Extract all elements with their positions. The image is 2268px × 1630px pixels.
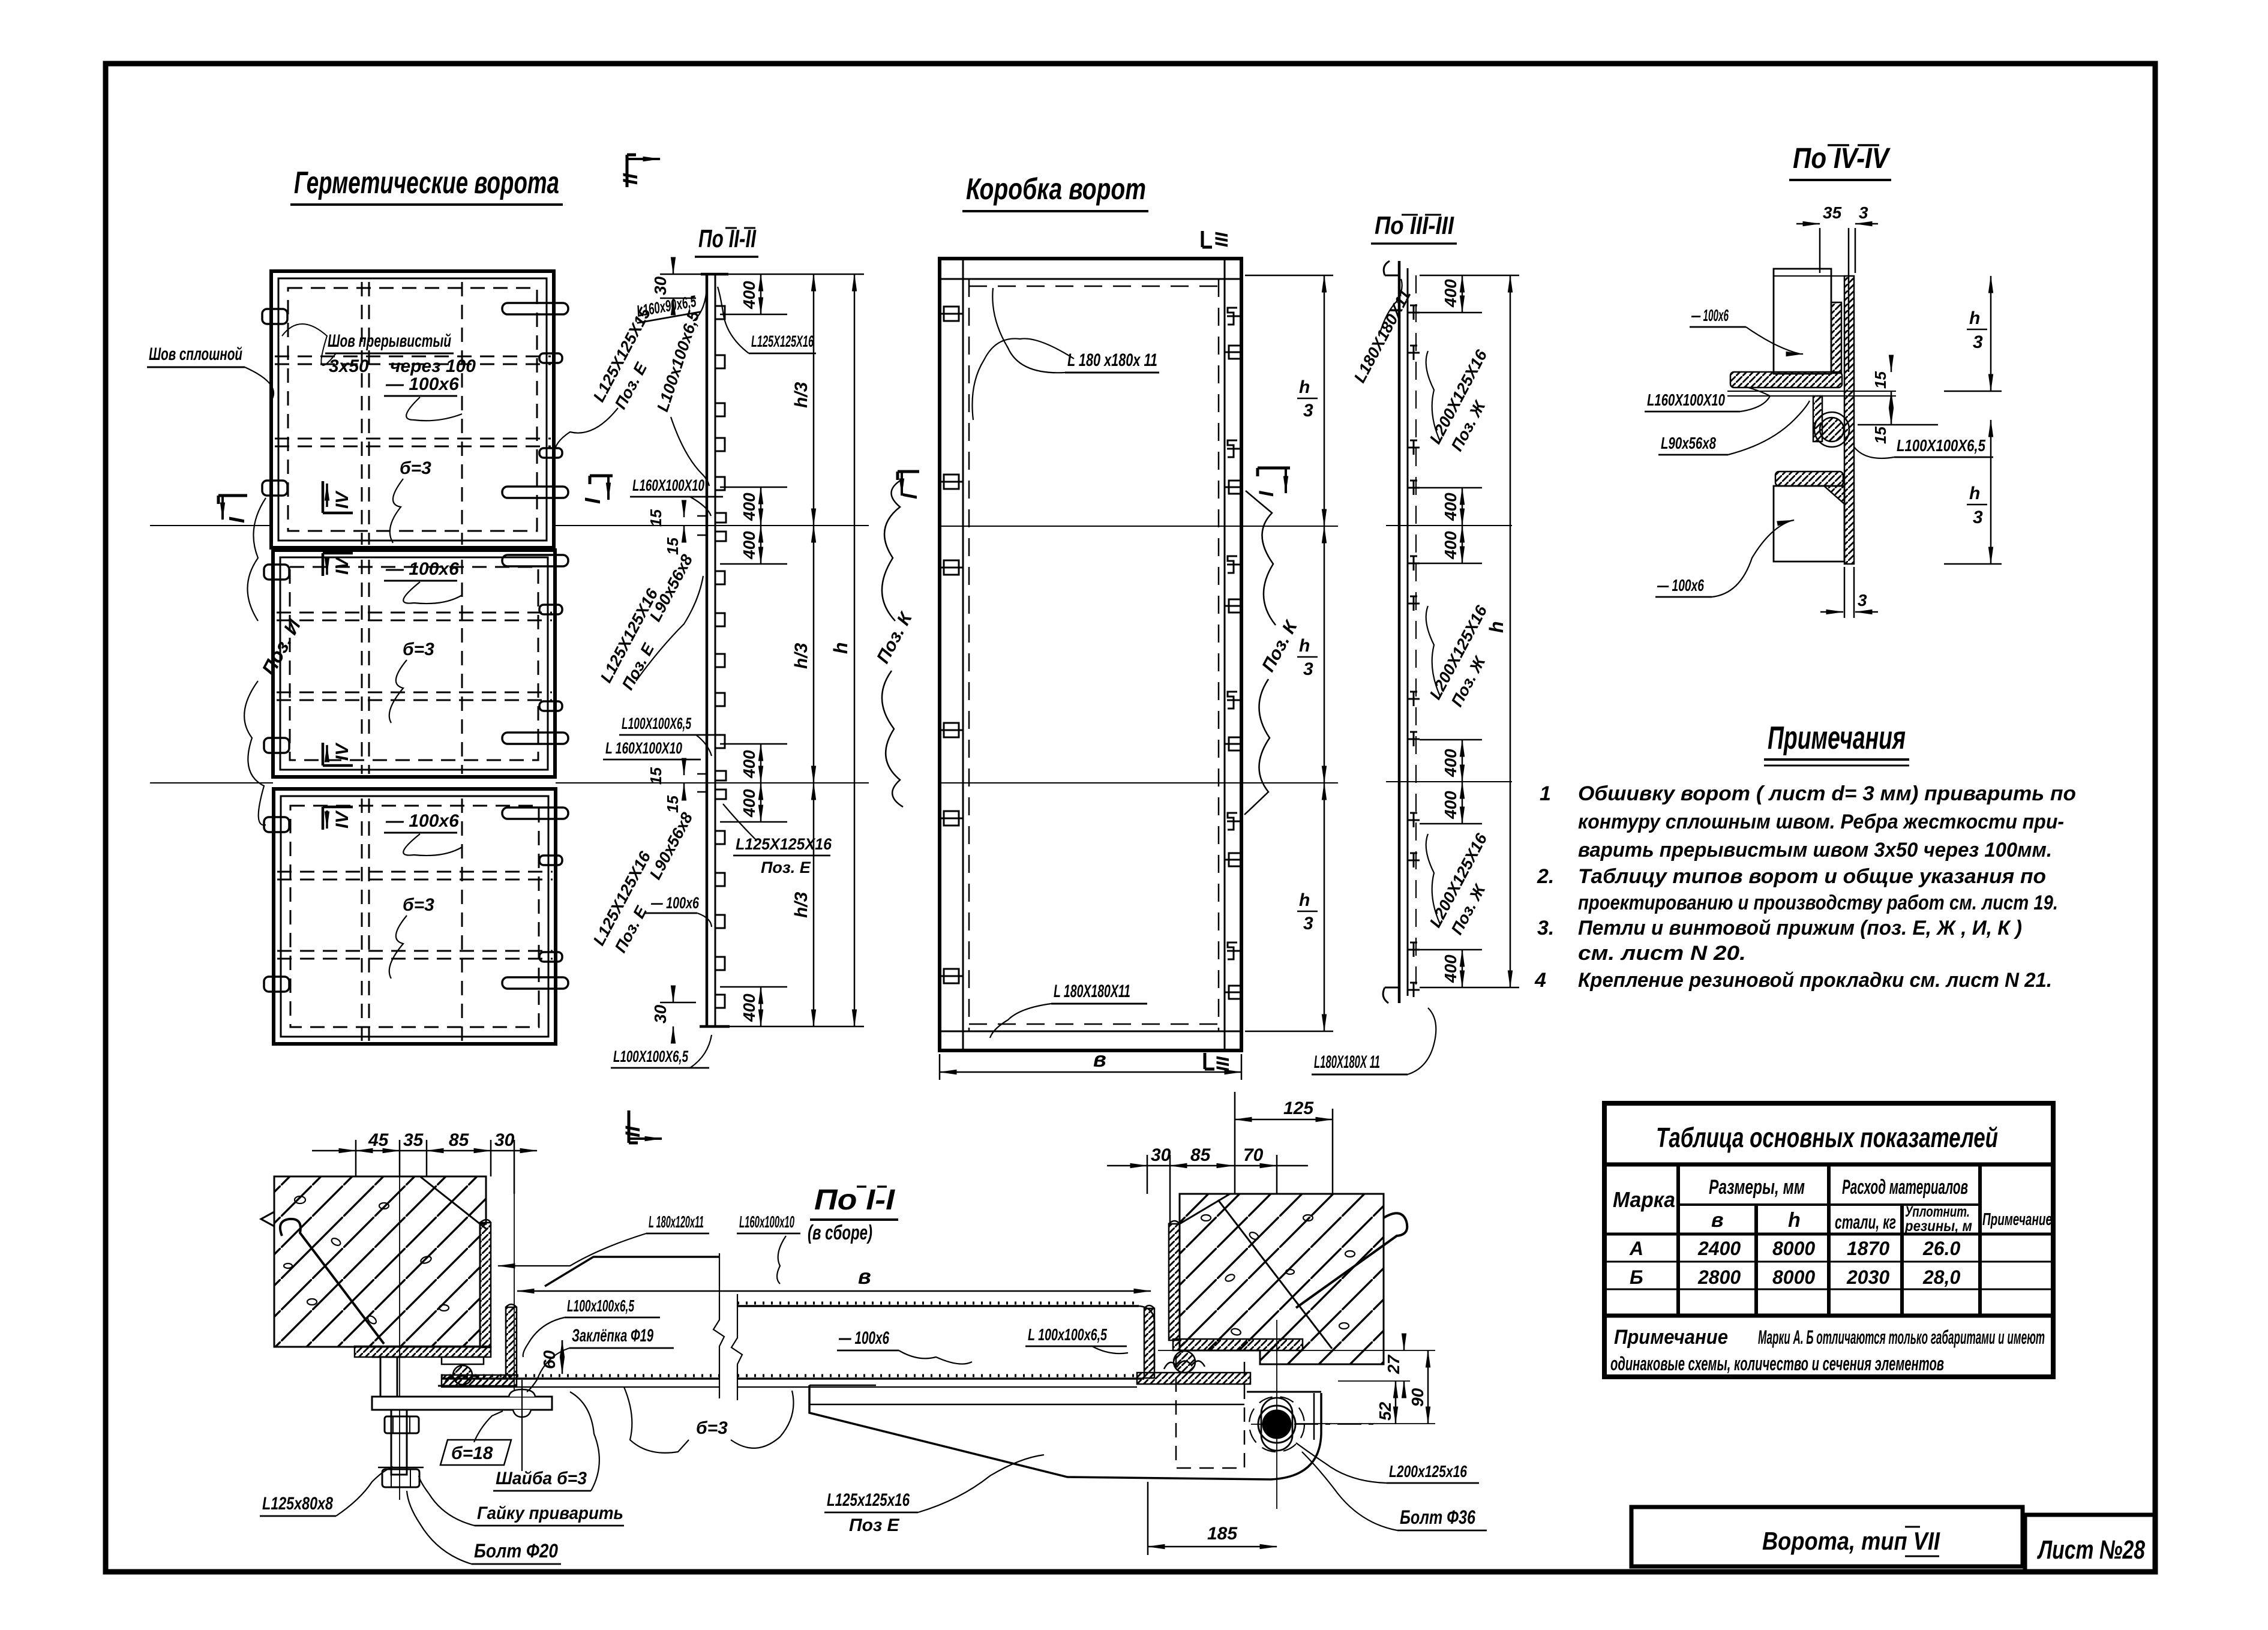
I-I gate sheet (left of break) [441,1376,719,1387]
II-II rotated label L90x56x8 (mid) [646,550,700,625]
svg-text:варить прерывистым швом: варить прерывистым швом 3х50 через 100мм… [1578,839,2052,861]
II-II label L160x100x10 (mid2) [603,739,701,760]
II-II label L125x125x16 right [718,287,816,353]
I-I bottom bracket plate (Поз Е) [809,1385,1321,1479]
IV-IV h/3 dims (right) [1944,276,2002,564]
svg-text:L100Х100Х6,5: L100Х100Х6,5 [613,1047,689,1065]
svg-text:Шов сплошной: Шов сплошной [149,344,242,364]
svg-text:52: 52 [1376,1401,1394,1421]
I-I label L160x100x10 (top row) [737,1212,800,1284]
svg-text:б=18: б=18 [451,1443,493,1463]
II-II dim 30 top [651,264,702,308]
I-I label Болт Ф20 [407,1491,561,1564]
svg-text:125: 125 [1283,1098,1314,1118]
I-I break lines [713,1253,742,1400]
I-I label L100x100x6,5 (mid-left) [523,1296,660,1357]
svg-text:70: 70 [1243,1145,1264,1165]
panel 1 clamp bars [502,303,568,498]
svg-text:L200х125х16: L200х125х16 [1389,1462,1467,1481]
svg-text:L125х80х8: L125х80х8 [262,1494,333,1514]
svg-text:IV: IV [332,810,352,828]
I-I label L180x120x11 [498,1212,709,1266]
svg-text:Крепление резиновой проклад: Крепление резиновой прокладки см. лист N… [1578,969,2052,992]
svg-text:Размеры, мм: Размеры, мм [1709,1176,1805,1199]
II-II rotated label L100x100x6,5 (top) [653,308,709,486]
svg-text:400: 400 [1441,791,1460,819]
I-I bolt axis line [399,1176,400,1500]
IV-IV hinge pin [1814,412,1849,447]
svg-text:400: 400 [740,789,758,818]
svg-text:30: 30 [651,1004,670,1023]
section III-III strip [1383,261,1416,1003]
III-III rotated label L180x180x11 (top) [1351,279,1415,386]
II-II h/3 dim line [791,274,814,1026]
svg-text:Примечание: Примечание [1982,1210,2052,1229]
svg-text:3.: 3. [1537,917,1554,939]
panel 2 clamp bars [502,555,568,744]
svg-text:стали, кг: стали, кг [1835,1211,1896,1233]
notes text [1534,782,2076,992]
gate elevation: panel 3 [274,789,556,1044]
title block: Лист № 28 [2025,1515,2156,1572]
section line between panels 2-3 [150,782,273,784]
svg-text:15: 15 [647,509,665,527]
title: По III-III [1371,211,1457,244]
label: Шов прерывистый 3х50 через 100 [282,324,476,376]
svg-text:26.0: 26.0 [1922,1238,1960,1259]
IV-IV hinge angle L90x56x8 (hatched) [1813,396,1822,442]
svg-text:б=3: б=3 [400,458,431,478]
I-I label -100x6 (sheet) [837,1328,972,1364]
svg-text:400: 400 [740,493,758,521]
svg-text:L 160Х100Х10: L 160Х100Х10 [605,739,682,757]
II-II rib stubs [697,306,726,1008]
IV-IV lower panel sheet outline [1774,486,1844,562]
svg-text:Б: Б [1630,1266,1643,1288]
svg-text:1870: 1870 [1847,1238,1889,1259]
svg-text:Болт Ф36: Болт Ф36 [1400,1506,1475,1528]
svg-text:IV: IV [332,742,352,761]
svg-text:б=3: б=3 [696,1418,728,1438]
svg-text:L160Х100Х10: L160Х100Х10 [632,476,704,494]
svg-text:h: h [1788,1209,1801,1232]
svg-text:h: h [1299,377,1310,397]
svg-text:— 100х6: — 100х6 [385,811,459,831]
svg-text:8000: 8000 [1772,1266,1815,1288]
I-I dims right (27,52,90) [1158,1335,1435,1424]
section flags IV (inside panels) [323,481,353,830]
svg-text:4: 4 [1534,969,1546,992]
svg-text:3: 3 [1303,401,1313,421]
title: Коробка ворот [962,172,1148,211]
svg-text:— 100х6: — 100х6 [385,374,459,394]
svg-text:Поз. Е: Поз. Е [761,858,811,876]
title: По II-II [695,224,758,257]
I-I right angle L180x180x11 [1169,1221,1303,1350]
II-II label L100x100x6,5 (mid2) [619,715,717,756]
svg-text:II: II [619,173,642,185]
svg-text:3: 3 [1859,203,1868,222]
svg-text:в: в [1711,1209,1724,1232]
svg-text:L 180х120х11: L 180х120х11 [649,1212,704,1231]
svg-text:2400: 2400 [1697,1238,1741,1259]
II-II label L160x100x10 (mid) [630,476,723,516]
I-I label Болт Ф36 [1302,1452,1487,1530]
korobka dim 125 (bottom right) [1235,1092,1333,1194]
II-II rotated label L125x125x16 Поз.Е (bottom) [590,848,655,955]
svg-text:По I-I: По I-I [814,1184,896,1216]
svg-text:15: 15 [664,538,682,555]
svg-text:90: 90 [1408,1388,1427,1407]
svg-text:L 180Х180Х11: L 180Х180Х11 [1054,981,1130,1001]
svg-text:III: III [1213,1056,1233,1071]
korobka section flag I (right) [1255,468,1290,497]
svg-text:27: 27 [1384,1354,1403,1374]
svg-text:(в сборе): (в сборе) [808,1221,872,1244]
svg-text:Марка: Марка [1613,1187,1675,1212]
IV-IV dim 35 / 3 (top) [1796,203,1878,372]
svg-text:h/3: h/3 [791,643,811,669]
I-I clamp web plate [372,1357,406,1397]
korobka section flag I (left) [898,472,922,499]
svg-text:Марки А. Б отличаются тольк: Марки А. Б отличаются только габаритами … [1758,1326,2045,1348]
I-I label L100x100x6,5 (right) [1025,1325,1128,1353]
label: б=3 (panel 3) [389,895,434,978]
svg-text:400: 400 [740,750,758,779]
svg-text:I: I [899,493,922,499]
svg-text:h: h [1299,890,1310,910]
I-I dim 185 [1148,1482,1277,1555]
I-I left gate angle L100x100x6,5 (hatched) [442,1304,517,1386]
IV-IV label L100x100x6,5 [1854,436,1993,458]
svg-text:в: в [858,1264,871,1289]
II-II dim 15 pairs [647,507,684,813]
I-I bolt with nuts [378,1410,424,1487]
svg-text:в: в [1093,1047,1106,1071]
IV-IV vertical sheet -100x6 (hatched) [1844,276,1854,564]
svg-text:I: I [1255,490,1278,497]
svg-text:через 100: через 100 [390,356,476,376]
svg-text:Обшивку ворот ( лист d= 3: Обшивку ворот ( лист d= 3 мм) приварить … [1578,782,2076,805]
svg-text:35: 35 [1823,203,1842,222]
svg-text:Примечания: Примечания [1768,720,1906,756]
label: Поз. И (rotated, left of gate) [244,498,305,825]
section flag II (bottom of gate) [622,1110,662,1143]
korobka label Поз. К (left) [873,480,917,807]
IV-IV L160x100x10 angle (hatched) [1730,302,1842,388]
korobka label L180x180x11 top [972,288,1159,420]
panel 2 hinges [264,561,289,757]
svg-text:400: 400 [740,531,758,560]
svg-text:L125Х125Х16: L125Х125Х16 [736,835,832,853]
svg-text:Ворота, тип VII: Ворота, тип VII [1762,1527,1940,1555]
svg-text:L125х125х16: L125х125х16 [827,1490,910,1510]
II-II dim 30 bottom [651,992,696,1037]
svg-text:L100Х100Х6,5: L100Х100Х6,5 [622,715,692,733]
label: б=3 (panel 2) [389,640,434,723]
svg-text:h: h [1969,308,1980,328]
IV-IV dim 3 (bottom) [1820,567,1878,618]
gate elevation: panel 1 [271,271,554,548]
svg-text:резины, м: резины, м [1904,1218,1972,1235]
label: -100x6 (panel 1) [384,374,462,421]
I-I gate sheet (right of break) [737,1303,1154,1387]
korobka label L180x180x11 bottom [990,981,1147,1038]
korobka label Поз. К (right) [1244,491,1302,815]
I-I dims above left block (45,35,85,30) [312,1130,537,1194]
II-II 400 dims [720,274,787,1026]
korobka vorot: frame box [940,259,1241,1050]
panel 1 hinges [262,305,287,499]
I-I dims above right block (30,85,70,125) [1107,1145,1308,1224]
panel 3 clamp bars [502,808,568,989]
svg-text:1: 1 [1540,782,1551,805]
svg-text:45: 45 [368,1130,389,1150]
svg-text:По IV-IV: По IV-IV [1793,143,1891,175]
korobka section flag III (top) [1202,231,1232,247]
svg-text:h: h [1299,636,1310,656]
svg-text:30: 30 [651,276,670,295]
svg-text:400: 400 [1441,531,1460,560]
svg-text:3: 3 [1303,914,1313,933]
IV-IV dim 15 pair (right) [1858,360,1938,444]
svg-text:L125Х125Х16: L125Х125Х16 [751,332,814,350]
svg-text:2.: 2. [1537,865,1554,888]
svg-text:3: 3 [1303,659,1313,679]
svg-text:— 100х6: — 100х6 [1657,576,1704,595]
svg-text:— 100х6: — 100х6 [1691,306,1729,325]
label: Шов сплошной [147,344,274,401]
I-I dim 60 [540,1340,562,1374]
svg-text:IV: IV [332,490,352,509]
II-II label L160x90x6,5 [634,276,707,323]
II-II rotated label L125x125x15 Поз.Е (top) [554,304,655,456]
label: -100x6 (panel 3) [384,811,462,855]
svg-text:28,0: 28,0 [1922,1266,1960,1288]
III-III h dim [1420,275,1519,987]
svg-text:L 180 х180х 11: L 180 х180х 11 [1067,350,1157,370]
title: Герметические ворота [290,166,563,205]
title: По I-I (в сборе) [808,1184,898,1244]
svg-text:Таблицу типов ворот и: Таблицу типов ворот и общие указания по [1578,865,2046,888]
svg-text:h: h [1969,484,1980,503]
I-I seal washers under flange [438,1357,488,1386]
IV-IV label -100x6 (lower) [1655,520,1794,597]
svg-text:2800: 2800 [1697,1266,1741,1288]
svg-text:30: 30 [1151,1145,1171,1165]
svg-text:Примечание: Примечание [1614,1326,1728,1349]
svg-text:h: h [830,642,851,654]
svg-text:400: 400 [740,281,758,310]
III-III 400 dims [1420,275,1482,987]
svg-text:15: 15 [1871,427,1889,444]
korobka left strip bolts [940,307,963,983]
svg-text:3: 3 [1973,508,1983,527]
svg-text:400: 400 [1441,954,1460,983]
svg-text:L100Х100Х6,5: L100Х100Х6,5 [1897,436,1985,455]
svg-text:III: III [1212,232,1232,247]
I-I left concrete block [261,1176,486,1347]
panel 3 hinges [264,814,289,995]
section line between panels 1-2 [150,525,271,526]
II-II label -100x6 (bottom) [644,894,712,927]
svg-text:L100х100х6,5: L100х100х6,5 [567,1296,634,1315]
I-I label b=3 (bottom leader) [624,1387,794,1453]
notes title: Примечания [1764,720,1909,766]
svg-text:контуру сплошным швом. Ре: контуру сплошным швом. Ребра жесткости п… [1578,811,2064,833]
svg-text:2030: 2030 [1846,1266,1889,1288]
svg-text:Расход материалов: Расход материалов [1842,1176,1968,1199]
svg-text:проектированию и производств: проектированию и производству работ см. … [1578,891,2058,914]
svg-text:Лист №28: Лист №28 [2037,1535,2146,1565]
svg-text:Шайба б=3: Шайба б=3 [496,1469,587,1488]
IV-IV label L160x100x10 [1645,387,1770,412]
svg-text:L 100х100х6,5: L 100х100х6,5 [1028,1325,1107,1344]
I-I label b=18 (boxed) [440,1411,511,1465]
II-II label L100x100x6,5 (bottom) [611,1035,712,1068]
III-III section lines [1386,525,1512,526]
svg-text:— 100х6: — 100х6 [838,1328,889,1348]
svg-text:Герметические ворота: Герметические ворота [294,166,559,200]
svg-text:400: 400 [1441,749,1460,778]
svg-text:Гайку приварить: Гайку приварить [477,1503,623,1523]
II-II h dim line [719,274,864,1026]
III-III clips [1408,305,1420,997]
I-I right gate angle L100x100x6,5 + seal [1137,1305,1250,1384]
label: б=3 (panel 1) [390,458,431,543]
svg-text:Заклёпка Ф19: Заклёпка Ф19 [572,1326,653,1346]
IV-IV label L90x56x8 [1658,401,1810,455]
svg-text:см. лист N 20.: см. лист N 20. [1578,942,1746,965]
svg-text:30: 30 [494,1130,515,1150]
svg-text:L160Х100Х10: L160Х100Х10 [1647,391,1725,409]
I-I upper plate with bevel [545,1257,719,1286]
svg-text:Шов прерывистый: Шов прерывистый [328,331,451,351]
svg-text:15: 15 [664,796,682,813]
svg-text:Петли и винтовой прижим: Петли и винтовой прижим (поз. Е, Ж , И, … [1578,917,2022,939]
svg-text:L180Х180Х 11: L180Х180Х 11 [1314,1052,1380,1072]
title: По IV-IV [1789,143,1891,180]
svg-text:I: I [224,517,249,523]
svg-text:одинаковые схемы, количеств: одинаковые схемы, количество и сечения э… [1610,1353,1944,1374]
korobka section lines [940,526,1338,527]
svg-text:185: 185 [1207,1524,1238,1544]
svg-text:15: 15 [1871,371,1889,389]
I-I label Шайба б=3 [493,1380,599,1491]
I-I right concrete block [1180,1194,1407,1364]
I-I rivet on plate [509,1389,535,1417]
svg-text:85: 85 [449,1130,470,1150]
svg-text:Таблица основных показателей: Таблица основных показателей [1656,1122,1998,1153]
II-II rotated label L125x125x16 Поз.Е (mid) [597,576,703,693]
svg-text:15: 15 [647,767,665,785]
svg-text:h/3: h/3 [791,382,811,408]
I-I dashed bolt housing [1176,1355,1244,1468]
section flag II (top of gate) [619,155,660,187]
I-I clamp plate b=18 [372,1397,552,1410]
IV-IV thin joint lines [1727,276,1896,396]
svg-text:— 100х6: — 100х6 [650,894,699,912]
title block: Ворота, тип VII [1631,1507,2023,1566]
svg-text:400: 400 [740,993,758,1022]
I-I dim в (assembly width) [517,1264,1151,1291]
IV-IV label -100x6 (upper) [1690,306,1803,354]
IV-IV L100x100x6,5 lower angle (hatched) [1775,472,1844,504]
table: Таблица основных показателей [1604,1103,2053,1377]
svg-text:h/3: h/3 [791,891,811,918]
svg-text:35: 35 [403,1130,424,1150]
IV-IV detail: upper panel sheet outline [1774,269,1831,374]
korobka dim в (bottom) [940,1047,1241,1080]
korobka section flag III (bottom) [1205,1053,1233,1071]
III-III rotated labels L200x125x16 Поз.Ж [1426,346,1491,454]
svg-text:Коробка ворот: Коробка ворот [966,172,1146,206]
svg-text:L160х100х10: L160х100х10 [739,1212,794,1231]
svg-text:А: А [1629,1238,1643,1259]
II-II rotated label L90x56x8 (bottom) [646,809,697,882]
svg-text:8000: 8000 [1772,1238,1815,1259]
svg-text:3х50: 3х50 [329,356,369,376]
section flag I (right of panel 1, before II-II) [580,476,613,504]
section II-II strip [700,274,730,1026]
svg-text:б=3: б=3 [403,895,434,915]
I-I label L125x125x16 Поз Е [824,1455,1044,1535]
svg-text:б=3: б=3 [403,640,434,659]
svg-text:400: 400 [1441,279,1460,308]
svg-text:400: 400 [1441,493,1460,521]
svg-text:h: h [1486,621,1507,633]
I-I label Гайку приварить [419,1476,624,1526]
label L180x180x11 (between korobka and III-III bottom) [1312,1008,1436,1074]
table data rows [1629,1238,1960,1288]
gate elevation: panel 2 [273,550,555,777]
I-I left angle L180x120x11 [355,1220,491,1357]
svg-text:Болт Ф20: Болт Ф20 [474,1540,558,1562]
svg-text:IV: IV [332,556,352,575]
svg-text:Поз Е: Поз Е [849,1515,900,1535]
I-I bolt F36 [1249,1320,1380,1509]
svg-text:3: 3 [1973,332,1983,352]
section flag I (left of panel 1) [218,496,249,523]
korobka right strip hinges [1225,308,1242,999]
svg-text:L90х56х8: L90х56х8 [1661,434,1716,452]
svg-text:3: 3 [1858,591,1867,610]
II-II label L125x125x16 Поз.Е (below joint2) [723,804,832,876]
korobka h/3 dims right [1245,275,1333,1031]
label: -100x6 (panel 2) [384,559,462,604]
I-I label L200x125x16 [1296,1443,1479,1483]
I-I label Заклёпка Ф19 [527,1326,674,1392]
svg-text:I: I [580,497,605,504]
svg-text:— 100х6: — 100х6 [385,559,459,579]
I-I label L125x80x8 [260,1467,393,1516]
svg-text:II: II [622,1125,644,1137]
svg-text:85: 85 [1190,1145,1211,1165]
